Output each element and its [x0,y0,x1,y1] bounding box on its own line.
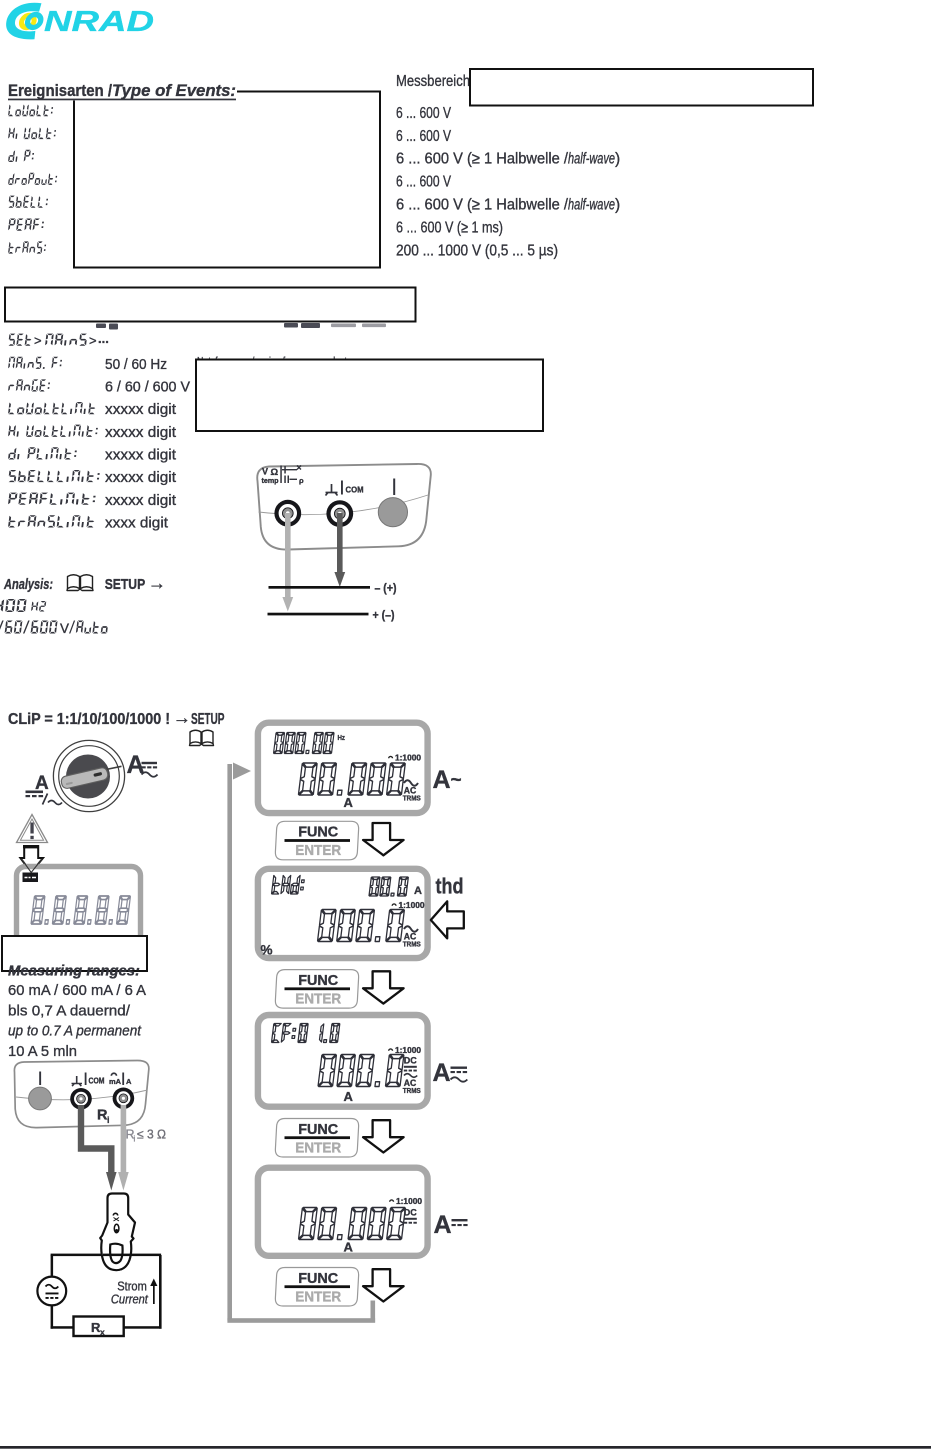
redaction box 2 [470,69,813,106]
svg-text:ρ: ρ [299,476,304,485]
svg-text:ENTER: ENTER [295,1140,341,1156]
svg-text:mA: mA [109,1079,121,1086]
down arrow 1 [363,823,404,855]
svg-text:ENTER: ENTER [295,1289,341,1305]
wire over clamp jaw [103,1254,130,1257]
FUNC button 2 [275,970,358,1009]
svg-text:ENTER: ENTER [295,843,341,859]
ground + COM label [326,484,338,496]
svg-text:thd: thd [436,874,464,899]
svg-text:6 / 60 / 600 V: 6 / 60 / 600 V [105,380,190,396]
FUNC button 1 [275,821,358,860]
svg-text:60 mA / 600 mA / 6 A: 60 mA / 600 mA / 6 A [8,982,146,999]
svg-text:TRMS: TRMS [403,796,421,803]
svg-text:– (+): – (+) [375,581,397,595]
source symbol [37,1277,66,1306]
7-seg: /60/600 V/Auto [0,621,58,634]
LCD screen 1 (A AC) [258,723,428,813]
svg-text:Hz: Hz [338,733,346,742]
test lead dark grey [337,513,343,573]
current arrow [153,1284,155,1304]
svg-text:>: > [89,333,97,348]
svg-text:+ (–): + (–) [373,608,395,622]
warning triangle [17,815,48,843]
LCD screen 4 (A DC) [258,1168,428,1256]
svg-text:1:1000: 1:1000 [395,1046,422,1055]
badge [23,873,39,883]
svg-text:≤ 3 Ω: ≤ 3 Ω [137,1128,166,1142]
svg-text:xxxx digit: xxxx digit [105,515,168,531]
svg-text:FUNC: FUNC [298,973,339,989]
svg-text:up to 0.7 A permanent: up to 0.7 A permanent [8,1023,142,1040]
svg-text:6 ... 600 V: 6 ... 600 V [396,128,452,145]
svg-text:AC: AC [404,932,417,942]
7-seg: 400 Hz [0,599,27,612]
jack blank (grey) [378,498,407,527]
circuit wires left/right/bottom [51,1255,54,1278]
event type labels (7-seg) [8,105,53,117]
svg-text:FUNC: FUNC [298,1122,339,1138]
jack symbols V ohm temp [262,466,305,486]
jack COM [326,500,353,527]
press arrow tail over LCD [22,859,43,873]
svg-text:xxxxx digit: xxxxx digit [105,425,176,441]
svg-text:Analysis:: Analysis: [3,576,53,593]
redaction box 3 [5,288,416,322]
svg-text:~: ~ [451,770,462,791]
svg-text:A: A [433,1059,451,1087]
circuit top wire [51,1254,162,1257]
svg-text:FUNC: FUNC [298,825,339,841]
down arrow 2 [363,971,404,1003]
svg-text:ENTER: ENTER [295,991,341,1007]
svg-text:COM: COM [89,1077,105,1086]
svg-text:1:1000: 1:1000 [396,1197,423,1206]
svg-text:6 ... 600 V: 6 ... 600 V [396,105,452,122]
svg-text:AC: AC [404,786,417,796]
flow loop line [227,764,375,1323]
resistor Rx [74,1317,124,1337]
svg-text:Type of Events:: Type of Events: [112,82,236,100]
svg-text:10 A 5 mln: 10 A 5 mln [8,1043,77,1060]
svg-text:V: V [60,621,69,636]
down arrow 4 [363,1269,404,1301]
connector panel bottom [14,1060,148,1127]
svg-text:SETUP: SETUP [191,711,225,728]
redaction box 5 [2,936,147,971]
svg-text:%: % [261,943,273,958]
svg-text:CLiP = 1:1/10/100/1000 !: CLiP = 1:1/10/100/1000 ! [8,711,170,728]
LCD screen 2 (thd) [258,869,428,958]
bottom rule [0,1446,931,1449]
svg-text:): ) [615,151,620,168]
svg-text:i: i [134,1135,136,1144]
svg-text:6 ... 600 V (≥ 1 ms): 6 ... 600 V (≥ 1 ms) [396,219,503,236]
svg-text:TRMS: TRMS [403,1088,421,1095]
svg-text:xxxxx digit: xxxxx digit [105,402,176,418]
svg-text:A: A [126,1077,132,1086]
svg-text:A: A [414,885,422,897]
svg-text:xxxxx digit: xxxxx digit [105,470,176,486]
svg-text:DC: DC [404,1208,418,1218]
svg-text:SETUP: SETUP [105,576,146,593]
8.8.8.8.8 digits [31,896,130,924]
LCD screen 3 (CF) [258,1015,428,1107]
svg-text:temp: temp [262,476,280,485]
redaction box 1 [74,92,380,268]
svg-text:Measuring ranges:: Measuring ranges: [8,963,140,980]
Conrad logo [3,3,154,40]
svg-text:TRMS: TRMS [403,942,421,949]
svg-text:200 ... 1000 V (0,5 ... 5 µs): 200 ... 1000 V (0,5 ... 5 µs) [396,242,558,259]
measured line 2 [268,613,369,616]
svg-text:6 ... 600 V (≥ 1 Halbwelle /: 6 ... 600 V (≥ 1 Halbwelle / [396,151,569,168]
clamp glyph + mA|A [111,1072,118,1075]
svg-text:COM: COM [346,485,364,495]
svg-text:bls 0,7 A dauernd/: bls 0,7 A dauernd/ [8,1002,131,1019]
current clamp [100,1194,135,1271]
wire light from A [121,1105,127,1173]
redaction box 4 [196,360,543,432]
svg-text:A: A [344,1240,354,1255]
svg-text:xxxxx digit: xxxxx digit [105,493,176,509]
svg-text:i: i [107,1115,110,1125]
svg-text:1:1000: 1:1000 [399,901,426,910]
A jack [113,1088,135,1110]
FUNC button 4 [275,1268,358,1307]
svg-text:Ereignisarten /: Ereignisarten / [8,82,112,100]
svg-text:A: A [433,766,451,794]
down arrow 3 [363,1120,404,1152]
measured line 1 [269,586,371,589]
book icon [67,575,93,591]
svg-text:>: > [34,333,42,348]
connector panel top [257,464,431,550]
heading Ereignisarten [0,81,237,101]
book icon 2 [190,730,214,745]
remnant marks under box3 [96,323,386,330]
svg-text:A: A [434,1211,452,1239]
COM jack [70,1088,92,1110]
svg-text:xxxxx digit: xxxxx digit [105,448,176,464]
svg-text:): ) [615,197,620,214]
svg-text:half-wave: half-wave [568,151,615,168]
svg-text:→: → [148,573,166,593]
wire dark from COM [81,1105,111,1173]
svg-text:half-wave: half-wave [568,197,615,214]
svg-text:6 ... 600 V: 6 ... 600 V [396,174,452,191]
svg-text:DC: DC [404,1056,418,1066]
svg-text:Messbereich: Messbereich [396,73,470,90]
svg-text:AC: AC [404,1078,417,1088]
clamp face marks [113,1213,119,1216]
grey jack [29,1087,52,1110]
settings rows (7-seg) [8,357,62,369]
svg-text:A: A [344,1089,354,1104]
small LCD [17,867,141,955]
svg-text:V: V [262,467,268,477]
rotary switch [53,740,124,811]
svg-text:...: ... [98,331,109,346]
svg-text:FUNC: FUNC [298,1271,339,1287]
svg-text:x: x [100,1327,105,1337]
FUNC button 3 [275,1119,358,1158]
press arrow [20,846,43,872]
svg-text:50 / 60 Hz: 50 / 60 Hz [105,357,167,373]
svg-text:A: A [344,795,354,810]
test lead light grey [285,513,291,598]
SEt > MAinS menu line [8,334,32,346]
svg-text:→: → [173,708,191,728]
svg-text:NRAD: NRAD [44,6,154,38]
svg-text:6 ... 600 V (≥ 1 Halbwelle /: 6 ... 600 V (≥ 1 Halbwelle / [396,197,569,214]
svg-text:1:1000: 1:1000 [395,754,422,763]
svg-text:Strom: Strom [117,1279,147,1293]
svg-text:Current: Current [111,1292,148,1306]
jack V [274,500,301,527]
